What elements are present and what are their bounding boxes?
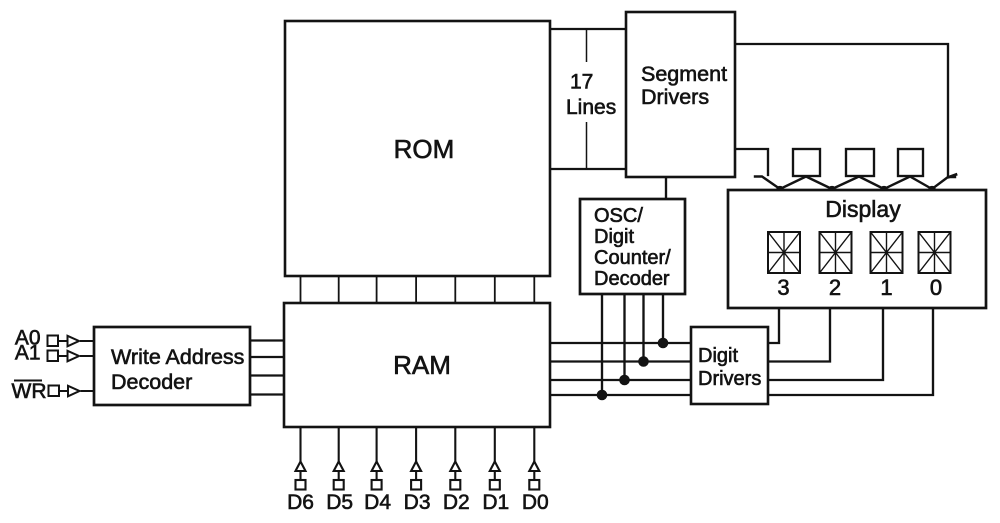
svg-text:Display: Display (825, 196, 901, 222)
wire ROM to Segment Drivers bus bottom rail (550, 168, 626, 170)
svg-text:Counter/: Counter/ (594, 247, 671, 269)
wire OSC output to digit line 1 (623, 294, 625, 380)
svg-text:Lines: Lines (566, 96, 616, 119)
svg-text:ROM: ROM (394, 134, 455, 164)
wire RAM to Digit Drivers / display digit 0 (550, 310, 933, 395)
pin D1 (490, 427, 500, 490)
svg-text:0: 0 (930, 275, 942, 300)
svg-text:A1: A1 (15, 342, 41, 365)
wire Segment Drivers to display arrow 1 (735, 149, 768, 175)
pin A0 (15, 327, 94, 350)
svg-text:D3: D3 (404, 491, 431, 514)
wire Segment Drivers to OSC block (665, 177, 667, 199)
pin WR (active low) (12, 380, 95, 403)
arrow tube 3 (846, 149, 874, 176)
wire 17-lines bus tick (586, 29, 588, 169)
wire decoder output 2 to RAM (250, 356, 284, 358)
wire RAM to Digit Drivers / display digit 2 (550, 310, 830, 362)
block Write Address Decoder (94, 327, 250, 405)
pin D5 (334, 427, 344, 490)
svg-text:Digit: Digit (594, 226, 634, 248)
svg-text:D0: D0 (522, 491, 549, 514)
svg-text:WR: WR (12, 380, 47, 403)
junction dot on line 2 (638, 356, 649, 367)
display digit cell 3 (768, 232, 800, 273)
svg-text:D4: D4 (364, 491, 391, 514)
block ROM (285, 21, 550, 276)
svg-text:Decoder: Decoder (111, 370, 192, 394)
display digit cell 2 (820, 232, 852, 273)
arrow tube 4 (898, 149, 923, 176)
wire ROM-RAM connector bus (7 lines) (301, 276, 535, 303)
svg-text:OSC/: OSC/ (594, 205, 643, 227)
data pins D6-D0 (296, 427, 540, 490)
wire arrowhead zigzag row into Display (755, 177, 955, 190)
pin D0 (529, 427, 539, 490)
display digit cell 0 (919, 232, 951, 273)
svg-text:2: 2 (829, 275, 841, 300)
display digit cell 1 (871, 232, 903, 273)
svg-text:Drivers: Drivers (641, 85, 709, 109)
block Digit Drivers (691, 327, 768, 404)
wire OSC output to digit line 2 (642, 294, 644, 362)
wire RAM to Digit Drivers / display digit 1 (550, 310, 883, 380)
arrow tube 2 (793, 149, 820, 176)
wire ROM to Segment Drivers bus top rail (550, 28, 626, 30)
pin D6 (296, 427, 306, 490)
svg-text:3: 3 (777, 275, 789, 300)
wire Segment Drivers to rightmost display arrow (735, 44, 948, 176)
block OSC / Digit Counter / Decoder (580, 199, 685, 294)
arrowhead foot blobs on display edge (776, 186, 935, 191)
svg-text:D1: D1 (482, 491, 509, 514)
svg-text:Segment: Segment (641, 62, 727, 86)
svg-text:D2: D2 (443, 491, 470, 514)
wire OSC output to digit line 0 (601, 294, 603, 395)
wire decoder output 3 to RAM (250, 374, 284, 376)
wire OSC output to digit line 3 (662, 294, 664, 343)
block Display (728, 190, 986, 308)
wire decoder output 1 to RAM (250, 339, 284, 341)
junction dot on line 3 (658, 338, 669, 349)
block Segment Drivers (626, 12, 735, 177)
arrowhead nub on rightmost arrow stub (949, 175, 956, 178)
block RAM (284, 303, 550, 427)
svg-text:1: 1 (880, 275, 892, 300)
svg-text:RAM: RAM (393, 350, 451, 380)
svg-text:17: 17 (570, 71, 593, 94)
wire decoder output 4 to RAM (250, 393, 284, 395)
pin D3 (411, 427, 421, 490)
pin A1 (15, 342, 94, 365)
svg-text:D6: D6 (287, 491, 314, 514)
junction dot on line 1 (619, 375, 630, 386)
svg-text:Drivers: Drivers (698, 368, 761, 390)
svg-text:D5: D5 (326, 491, 353, 514)
pin D4 (372, 427, 382, 490)
svg-text:Decoder: Decoder (594, 268, 670, 290)
junction dot on line 0 (597, 390, 608, 401)
svg-text:Digit: Digit (698, 345, 738, 367)
pin D2 (450, 427, 460, 490)
wire RAM to Digit Drivers / display digit 3 (550, 310, 779, 343)
svg-text:Write Address: Write Address (111, 345, 244, 369)
label 17 Lines (561, 62, 620, 122)
